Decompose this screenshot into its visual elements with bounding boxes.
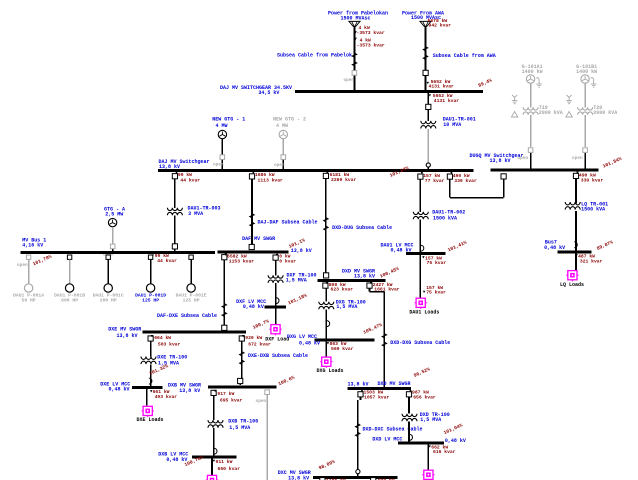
percent label 101,78% on MV Bus 1 — [32, 254, 53, 268]
svg-text:DXD-DXG Subsea Cable: DXD-DXG Subsea Cable — [390, 340, 450, 346]
svg-text:-3573 kvar: -3573 kvar — [357, 30, 385, 36]
percent label 101,84% on DUGQ bus — [602, 156, 623, 170]
transformer DXB TR-100 1.5 MVA — [208, 419, 258, 431]
svg-text:0,48 kV: 0,48 kV — [544, 245, 565, 251]
svg-text:2000 kVA: 2000 kVA — [539, 110, 563, 116]
LV breaker arc DXG LV MCC — [410, 434, 413, 440]
breaker above DAF bus — [249, 244, 254, 249]
bus DXC MV SWGR 13.8kV — [278, 470, 398, 480]
percent label 100,6% on DXB bus — [277, 375, 295, 388]
flow label Bus7 load — [575, 253, 602, 264]
wire DXG bus to DXG TR-100 — [408, 397, 410, 414]
breaker above MV Bus 1 — [172, 244, 177, 249]
utility U1 Power from Pabelokan — [328, 11, 388, 28]
wire DXG bus to DXC bus — [358, 397, 361, 470]
svg-text:99 kW: 99 kW — [178, 172, 192, 178]
svg-text:1,5 MVA: 1,5 MVA — [336, 304, 357, 310]
svg-text:4 MW: 4 MW — [276, 123, 288, 129]
svg-text:1500 MVAsc: 1500 MVAsc — [340, 16, 370, 22]
transformer DAU1-TR-002 1500 kVA — [413, 209, 465, 221]
cable DXE-DXB Subsea Cable — [240, 352, 308, 365]
breaker feeder DAF->DXF — [273, 253, 296, 264]
percent label 101,41% on DAU1 LV MCC — [447, 240, 468, 254]
flow label DXB LV load — [213, 459, 240, 472]
flow label DXG LV load — [429, 445, 456, 456]
percent label 100,7% near DXF Load — [252, 318, 270, 331]
svg-text:DAF-DXE Subsea Cable: DAF-DXE Subsea Cable — [157, 313, 217, 319]
wire DUGQ bus to LQ TR-001 — [575, 178, 577, 203]
svg-text:695 kvar: 695 kvar — [220, 397, 243, 403]
svg-text:339 kvar: 339 kvar — [581, 178, 604, 184]
percent label 98,09% on DXC bus — [318, 459, 336, 472]
breaker (open) T20 to DUGQ bus — [572, 148, 587, 161]
svg-text:1057 kvar: 1057 kvar — [364, 394, 390, 400]
svg-text:13,8 kV: 13,8 kV — [179, 388, 200, 394]
svg-text:1153 kvar: 1153 kvar — [229, 259, 255, 265]
breaker (open) NEW GTG - 1 — [213, 155, 225, 168]
svg-text:13,8 kV: 13,8 kV — [348, 381, 369, 387]
svg-text:DXE Loads: DXE Loads — [136, 417, 163, 423]
bus DUGQ MV Switchgear 13.8kV — [470, 153, 599, 170]
bus DXG MV SWGR 13.8kV — [348, 381, 412, 389]
bus Bus7 0.48kV — [544, 240, 591, 253]
svg-text:1,5 MVA: 1,5 MVA — [420, 417, 441, 423]
load DXD Loads — [317, 357, 344, 374]
svg-text:open: open — [343, 78, 354, 83]
svg-text:0,48 kV: 0,48 kV — [166, 457, 187, 463]
svg-text:4,16 kV: 4,16 kV — [22, 243, 43, 249]
svg-text:75 kvar: 75 kvar — [427, 260, 447, 266]
percent label 101,04% on DXG LV MCC — [443, 422, 464, 436]
svg-text:10 MVA: 10 MVA — [443, 122, 461, 128]
cable DXD-DXG Subsea Cable — [382, 334, 450, 347]
svg-text:DAU1-TR-002: DAU1-TR-002 — [432, 209, 465, 215]
breaker feeder DXE->DXB — [239, 335, 271, 348]
svg-text:DXD-DUG Subsea Cable: DXD-DUG Subsea Cable — [332, 225, 392, 231]
wire DXB to DXC (open, de-energized) — [266, 390, 268, 480]
wire DAJ bus to DAF bus — [251, 179, 253, 245]
bus DXB LV MCC 0.48kV — [158, 451, 236, 462]
percent label 101,18% on DXF LV MCC — [287, 293, 308, 307]
bus DXD MV SWGR 13.8kV — [318, 269, 386, 281]
svg-text:920 kW: 920 kW — [245, 335, 262, 341]
svg-text:1400 kW: 1400 kW — [576, 69, 597, 75]
wire LQ TR-001 to Bus7 — [575, 211, 577, 251]
breaker CB-AWA — [423, 70, 428, 75]
flow label below 34.5kV bus — [429, 93, 460, 104]
breaker feeder DAJ->DAF — [249, 172, 283, 184]
svg-text:13,8 kV: 13,8 kV — [159, 164, 180, 170]
wire DXB TR-100 to DXB LV MCC — [213, 428, 215, 456]
svg-text:DXG LV MCC: DXG LV MCC — [287, 334, 317, 340]
svg-text:1,5 MVA: 1,5 MVA — [229, 425, 250, 431]
svg-text:125 HP: 125 HP — [142, 297, 159, 303]
wire DAJ bus to DXD bus — [325, 178, 327, 273]
LV breaker arc DXD LV MCC — [327, 321, 330, 327]
percent label 89,87% on Bus7 — [596, 239, 614, 252]
breaker above DXB bus — [238, 378, 243, 383]
LV breaker arc DXB LV MCC — [214, 448, 217, 454]
breaker (open) GTG - A — [103, 244, 115, 257]
load DAU1 Loads — [409, 298, 439, 315]
wire DAF bus to DXF TR-100 — [275, 260, 277, 276]
percent label 100,45% on DXD bus — [379, 266, 400, 280]
motor DAU1 P-001C 200 HP — [93, 255, 124, 303]
bus MV Bus 1 4.16kV — [21, 237, 215, 252]
flow label DAU1 LV feeder — [422, 255, 446, 266]
percent label 101,1% on DAF bus — [288, 237, 306, 250]
transformer LQ TR-001 1500 kVA — [565, 201, 608, 212]
bus DAF MV SWGR 13.8kV — [217, 236, 311, 254]
svg-text:493 kvar: 493 kvar — [155, 394, 178, 400]
transformer DAU1-TR-001 10 MVA — [421, 117, 476, 129]
wye winding symbol T20 — [566, 95, 572, 104]
delta winding symbol T19 — [511, 112, 517, 118]
svg-text:616 kvar: 616 kvar — [433, 449, 456, 455]
transformer DXD TR-100 1.5 MVA — [319, 299, 366, 310]
svg-text:0,48 kV: 0,48 kV — [445, 438, 466, 444]
svg-text:339 kvar: 339 kvar — [454, 178, 477, 184]
svg-text:77 kvar: 77 kvar — [425, 178, 445, 184]
cable DAF-DXE Subsea Cable — [157, 304, 227, 319]
bus DXF LV MCC 0.48kV — [236, 299, 286, 310]
wire DXD TR-100 to DXD LV MCC — [325, 309, 327, 339]
delta winding symbol T20 — [566, 112, 572, 118]
wire DXB bus to DXB TR-100 — [213, 395, 215, 420]
percent label 100,78% on DXB LV MCC — [184, 454, 205, 468]
svg-text:1500 kVA: 1500 kVA — [433, 216, 457, 222]
generator GTG - A 2.5 MW — [104, 206, 125, 226]
wire G-101B1 to T20 — [584, 83, 586, 107]
load DXE Loads — [136, 406, 163, 423]
svg-text:13,8 kV: 13,8 kV — [490, 158, 511, 164]
flow label DXE LV load — [150, 389, 177, 400]
cable DXG-DXC Subsea Cable — [356, 424, 423, 437]
svg-text:DXD MV SWGR: DXD MV SWGR — [378, 381, 411, 387]
breaker above DXE bus — [222, 325, 227, 330]
wire DXE bus to DXE TR-100 — [150, 341, 152, 357]
svg-text:-3573 kvar: -3573 kvar — [357, 43, 385, 49]
svg-text:0,48 kV: 0,48 kV — [108, 387, 129, 393]
cable DAJ-DAF Subsea Cable — [250, 214, 318, 227]
svg-text:2,5 MW: 2,5 MW — [105, 211, 123, 217]
cable Subsea Cable from AWA — [423, 47, 495, 60]
svg-text:942 kvar: 942 kvar — [429, 23, 452, 29]
percent label 96,52% on DXG bus — [413, 366, 431, 379]
breaker tie DAJ side — [447, 172, 477, 184]
breaker (open) NEW GTG - 2 — [274, 155, 286, 168]
svg-text:DAJ-DAF Subsea Cable: DAJ-DAF Subsea Cable — [258, 220, 318, 226]
motor DAU1 P-001D 125 HP — [135, 255, 166, 303]
svg-text:open: open — [518, 156, 529, 161]
svg-text:DXE-DXB Subsea Cable: DXE-DXB Subsea Cable — [248, 353, 308, 359]
svg-text:650 kvar: 650 kvar — [218, 466, 241, 472]
svg-text:1400 kW: 1400 kW — [522, 69, 543, 75]
svg-text:DXD LV MCC: DXD LV MCC — [372, 436, 402, 442]
bus DXG LV MCC 0.48kV — [372, 436, 466, 444]
wire node to DXC bus — [357, 474, 359, 476]
transformer DXG TR-100 1.5 MVA — [402, 412, 450, 423]
percent label 101,32% on DXE LV MCC — [148, 363, 169, 377]
wire DXB LV MCC to load (cut at edge) — [211, 458, 213, 476]
svg-text:0,48 kV: 0,48 kV — [243, 304, 264, 310]
svg-text:3 MVA: 3 MVA — [188, 211, 203, 217]
wire DAU1 LV MCC to DAU1 Loads — [419, 255, 421, 299]
svg-text:Subsea Cable from AWA: Subsea Cable from AWA — [433, 53, 496, 59]
load DXG Loads (partially cut) — [422, 470, 434, 480]
svg-text:DAF MV SWGR: DAF MV SWGR — [242, 236, 275, 242]
svg-text:99 kW: 99 kW — [155, 253, 169, 259]
svg-text:DXB TR-100: DXB TR-100 — [228, 419, 258, 425]
svg-text:917 kW: 917 kW — [217, 391, 234, 397]
wire DXE TR-100 to DXE LV MCC — [150, 364, 152, 386]
LV breaker arc DAU1 LV MCC — [421, 245, 424, 251]
svg-text:DXE MV SWGR: DXE MV SWGR — [108, 326, 141, 332]
motor DAU1 P-001A 50 HP — [13, 255, 44, 303]
breaker feeder DAJ->TR-003 — [172, 172, 200, 184]
svg-text:DAU1 Loads: DAU1 Loads — [409, 310, 439, 316]
transformer DXE TR-100 1.5 MVA — [141, 354, 187, 366]
wye winding symbol T19 — [512, 95, 518, 104]
flow label into 34.5kV bus — [427, 79, 454, 90]
wire utility U1 to SWGR bus — [354, 28, 356, 91]
breaker feeder DAF->DXE — [222, 254, 255, 265]
svg-text:4131 kvar: 4131 kvar — [434, 98, 460, 104]
svg-text:600 HP: 600 HP — [61, 297, 78, 303]
motor DAU1 P-001B 600 HP — [54, 255, 85, 303]
flow label at MV Bus 1 feeder — [152, 253, 177, 264]
motor DAU1 P-001E 125 HP — [176, 255, 207, 303]
svg-text:1113 kvar: 1113 kvar — [258, 177, 284, 183]
wire G-101A1 to T19 — [530, 83, 532, 107]
breaker feeder DXG->DXC — [358, 389, 390, 400]
wire DXE LV MCC to DXE Loads — [146, 389, 148, 406]
breaker 2 below DXC bus (cut) — [371, 478, 395, 480]
wire DAJ bus to DAU1-TR-003 — [174, 179, 176, 208]
wire DAF bus to DXE bus — [223, 260, 225, 325]
svg-text:NEW GTG - 2: NEW GTG - 2 — [273, 117, 306, 123]
wire DXF LV MCC to DXF Load — [275, 308, 277, 325]
svg-text:2269 kvar: 2269 kvar — [331, 177, 357, 183]
svg-text:0,48 kV: 0,48 kV — [390, 247, 411, 253]
transformer T19 2000 kVA (offline) — [523, 105, 563, 116]
load LQ Loads — [560, 271, 584, 289]
svg-text:13,8 kV: 13,8 kV — [354, 274, 375, 280]
svg-text:656 kvar: 656 kvar — [413, 394, 436, 400]
svg-text:NEW GTG - 1: NEW GTG - 1 — [212, 117, 245, 123]
wire NEW GTG - 2 to bus — [282, 139, 284, 170]
node circle above DXC bus — [356, 470, 360, 474]
branch flow labels U2 — [428, 18, 452, 29]
switch SW1 (open) on Pabelokan feeder — [343, 71, 356, 83]
wire DXD LV MCC to DXD Loads — [325, 341, 327, 357]
ground symbol at G-101B1 — [591, 78, 597, 87]
generator NEW GTG - 2 4 MW (offline) — [273, 117, 306, 139]
breaker (open) T19 to DUGQ bus — [518, 148, 533, 161]
wire DAU1-TR-001 to DAJ 13.8kV bus — [427, 129, 429, 163]
svg-text:13,8 kV: 13,8 kV — [116, 333, 137, 339]
branch flow labels U1 — [354, 25, 385, 49]
svg-text:open: open — [274, 163, 285, 168]
load DXF Load — [265, 325, 289, 343]
generator G-101A1 1400 kW (offline) — [522, 64, 543, 83]
wire GTG - A to MV Bus 1 — [112, 227, 114, 252]
svg-text:0,48 kV: 0,48 kV — [299, 340, 320, 346]
svg-text:911 kW: 911 kW — [216, 459, 233, 465]
breaker below DXC bus (cut) — [320, 478, 346, 480]
svg-text:44 kvar: 44 kvar — [157, 258, 177, 264]
wire DXD bus to DXG bus — [370, 288, 385, 387]
cable Subsea Cable from Pabelokan — [277, 52, 357, 66]
wire DXF TR-100 to DXF LV MCC — [275, 283, 277, 306]
breaker CB below 34.5kV bus — [426, 104, 431, 109]
flow label at DAU1 Loads — [423, 285, 446, 296]
svg-text:623 kvar: 623 kvar — [331, 287, 354, 293]
svg-text:open: open — [256, 399, 267, 404]
svg-text:569 kvar: 569 kvar — [331, 346, 354, 352]
utility U2 Power From AWA — [402, 11, 444, 28]
LV breaker arc DXF LV MCC — [276, 298, 279, 304]
breaker feeder DXB->DXB TR-100 — [211, 390, 243, 403]
svg-text:1,5 MVA: 1,5 MVA — [158, 360, 179, 366]
wire Bus7 to LQ Loads — [575, 253, 577, 270]
percent label 105,47% on DXD-DXG cable — [362, 322, 383, 336]
bus DAU1 LV MCC 0.48kV — [380, 242, 445, 253]
svg-text:open: open — [572, 156, 583, 161]
generator NEW GTG - 1 4 MW — [212, 117, 245, 139]
percent label 89,4% on 34.5kV bus — [477, 77, 493, 88]
switch (open) DXB->DXC tie — [256, 390, 270, 404]
wire DAU1-TR-002 to DAU1 LV MCC — [419, 220, 421, 254]
cable DAJ-DXD Subsea Cable — [324, 218, 392, 232]
bus DXD LV MCC 0.48kV (mid) — [287, 334, 375, 346]
svg-text:1,5 MVA: 1,5 MVA — [286, 278, 307, 284]
wire 34.5kV bus to DAU1-TR-001 — [427, 91, 429, 121]
wire tie DAJ to DUGQ — [450, 179, 504, 198]
transformer T20 2000 kVA (offline) — [578, 105, 618, 116]
wire DXD bus to DXD TR-100 — [325, 288, 327, 302]
breaker feeder DXG->DXG TR-100 — [406, 389, 435, 400]
breaker feeder DAJ->DXD — [323, 172, 356, 183]
svg-text:13,8 kV: 13,8 kV — [291, 248, 312, 254]
wire DXG LV MCC to load — [427, 444, 429, 470]
svg-text:open: open — [17, 263, 28, 268]
bus DXE MV SWGR 13.8kV — [108, 326, 246, 339]
LV breaker arc Bus7 — [574, 242, 577, 248]
node circle above DAJ 13.8kV bus — [426, 163, 430, 167]
flow label DXD LV load — [327, 341, 354, 352]
wire NEW GTG - 1 to bus — [221, 139, 223, 170]
breaker feeder DXD->DXG — [367, 282, 400, 293]
svg-text:13,8 kV: 13,8 kV — [288, 475, 309, 480]
svg-text:Subsea Cable from Pabelok: Subsea Cable from Pabelok — [277, 52, 352, 58]
generator G-101B1 1400 kW (offline) — [576, 64, 597, 83]
svg-text:503 kvar: 503 kvar — [158, 342, 181, 348]
wire DAJ bus to DAU1-TR-002 — [419, 179, 421, 212]
svg-text:672 kvar: 672 kvar — [248, 342, 271, 348]
svg-text:44 kvar: 44 kvar — [180, 177, 200, 183]
breaker above DXD bus — [324, 273, 329, 278]
svg-text:125 HP: 125 HP — [183, 297, 200, 303]
svg-text:DXF Load: DXF Load — [265, 336, 289, 342]
wire utility U2 to SWGR bus — [425, 28, 427, 91]
svg-text:200 HP: 200 HP — [100, 297, 117, 303]
wire DAU1-TR-003 to MV Bus 1 — [174, 216, 176, 253]
svg-text:open: open — [213, 163, 224, 168]
bus DAJ MV SWITCHGEAR 34.5KV — [220, 85, 483, 96]
svg-text:75 kvar: 75 kvar — [426, 290, 446, 296]
transformer DAU1-TR-003 3 MVA — [167, 205, 220, 217]
svg-text:DXG Loads: DXG Loads — [317, 368, 344, 374]
wire DXE bus to DXB bus — [240, 341, 242, 385]
svg-text:34,5 kV: 34,5 kV — [258, 90, 279, 96]
wire DXG TR-100 to DXG LV MCC — [408, 421, 410, 442]
bus DXE LV MCC 0.48kV — [100, 382, 162, 393]
svg-text:664 kW: 664 kW — [154, 335, 171, 341]
svg-text:1500 kVA: 1500 kVA — [581, 207, 605, 213]
svg-text:4131 kvar: 4131 kvar — [429, 84, 455, 90]
svg-text:DAJ MV SWITCHGEAR 34.5KV: DAJ MV SWITCHGEAR 34.5KV — [220, 85, 292, 91]
svg-text:321 kvar: 321 kvar — [580, 258, 603, 264]
breaker feeder DUGQ->LQ — [573, 172, 603, 184]
svg-text:50 HP: 50 HP — [22, 297, 36, 303]
svg-text:DXD-DXC Subsea Cable: DXD-DXC Subsea Cable — [363, 427, 423, 433]
LV breaker arc DXE LV MCC — [149, 378, 152, 384]
breaker feeder DAJ->DAU1 LV — [418, 172, 445, 184]
svg-text:2000 kVA: 2000 kVA — [593, 110, 617, 116]
wire node to bus — [427, 167, 429, 170]
breaker tie DUGQ side — [501, 174, 506, 179]
transformer DXF TR-100 1.5 MVA — [268, 272, 316, 283]
load DXB Loads (cut at bottom edge) — [206, 475, 218, 480]
breaker feeder DXE->DXE TR-100 — [148, 335, 181, 348]
wire T19 down to DUGQ bus — [530, 115, 532, 170]
bus DAJ MV Switchgear 13.8kV — [158, 159, 474, 170]
svg-text:0 kvar: 0 kvar — [279, 258, 296, 264]
svg-text:4 MW: 4 MW — [215, 123, 227, 129]
wire T20 down to DUGQ bus — [584, 115, 586, 170]
percent label 101,84% on DAJ bus — [389, 165, 410, 179]
bus DXB MV SWGR 13.8kV — [168, 382, 277, 394]
breaker feeder DXD->DXD TR-100 — [323, 282, 353, 293]
svg-text:LQ Loads: LQ Loads — [560, 282, 584, 288]
svg-text:1686 kW: 1686 kW — [255, 172, 275, 178]
ground symbol at G-101A1 — [536, 78, 542, 87]
